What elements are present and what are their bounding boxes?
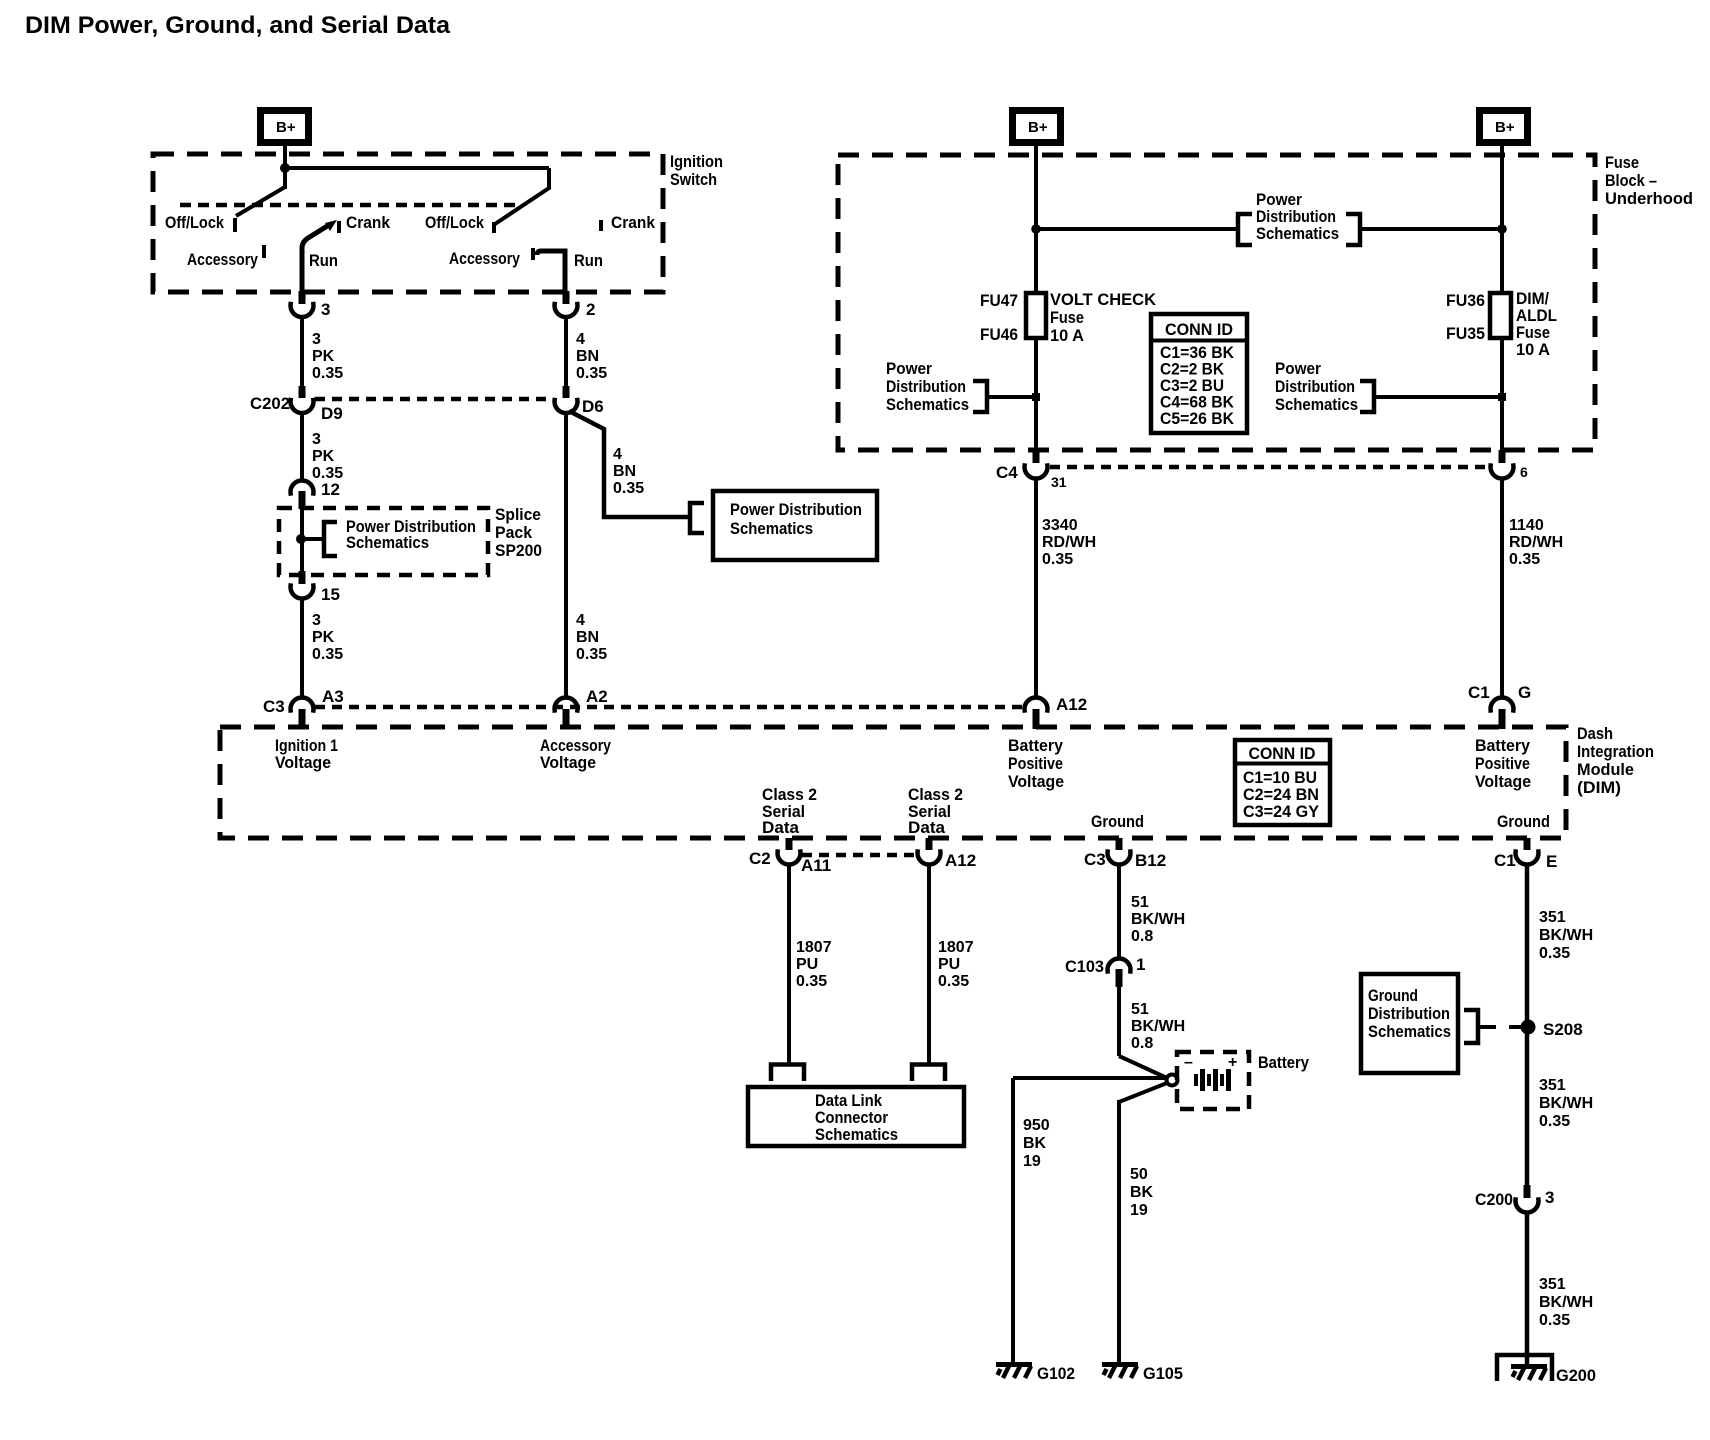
- svg-text:0.35: 0.35: [1539, 1113, 1570, 1130]
- svg-text:A12: A12: [945, 851, 976, 870]
- svg-text:3: 3: [321, 300, 330, 319]
- svg-text:31: 31: [1051, 474, 1067, 490]
- svg-text:S208: S208: [1543, 1020, 1583, 1039]
- svg-text:PU: PU: [796, 956, 818, 973]
- svg-text:D9: D9: [321, 404, 343, 423]
- svg-text:Dash: Dash: [1577, 724, 1613, 743]
- svg-text:Schematics: Schematics: [815, 1125, 898, 1144]
- svg-text:BN: BN: [613, 463, 636, 480]
- svg-text:50: 50: [1130, 1166, 1148, 1183]
- svg-text:Run: Run: [574, 251, 603, 270]
- svg-text:0.35: 0.35: [1042, 551, 1073, 568]
- svg-text:0.35: 0.35: [796, 973, 827, 990]
- svg-text:Voltage: Voltage: [1008, 772, 1064, 791]
- svg-text:12: 12: [321, 480, 340, 499]
- svg-text:FU47: FU47: [980, 291, 1018, 310]
- svg-text:1: 1: [1136, 955, 1145, 974]
- svg-text:Off/Lock: Off/Lock: [165, 213, 224, 232]
- svg-text:Battery: Battery: [1008, 736, 1063, 755]
- svg-text:C200: C200: [1475, 1190, 1513, 1209]
- svg-text:51: 51: [1131, 1001, 1149, 1018]
- svg-text:FU46: FU46: [980, 325, 1018, 344]
- svg-text:4: 4: [576, 612, 585, 629]
- svg-text:A12: A12: [1056, 695, 1087, 714]
- svg-text:1807: 1807: [938, 939, 974, 956]
- svg-text:0.35: 0.35: [576, 646, 607, 663]
- svg-text:Pack: Pack: [495, 523, 533, 542]
- svg-text:Module: Module: [1577, 760, 1634, 779]
- svg-text:Battery: Battery: [1258, 1053, 1309, 1072]
- svg-text:Schematics: Schematics: [346, 533, 429, 552]
- svg-text:A11: A11: [801, 856, 831, 875]
- svg-text:A3: A3: [322, 687, 344, 706]
- svg-text:Power Distribution: Power Distribution: [730, 500, 862, 519]
- svg-text:PK: PK: [312, 448, 335, 465]
- svg-text:3: 3: [312, 431, 321, 448]
- svg-text:C3=24 GY: C3=24 GY: [1243, 802, 1320, 821]
- svg-text:51: 51: [1131, 894, 1149, 911]
- svg-text:B+: B+: [1028, 119, 1048, 136]
- svg-text:Ground: Ground: [1368, 986, 1418, 1005]
- svg-text:CONN ID: CONN ID: [1249, 744, 1316, 763]
- svg-text:Run: Run: [309, 251, 338, 270]
- svg-text:G102: G102: [1037, 1364, 1075, 1383]
- svg-text:Ground: Ground: [1497, 812, 1550, 831]
- svg-text:VOLT CHECK: VOLT CHECK: [1050, 290, 1157, 309]
- svg-text:10 A: 10 A: [1050, 326, 1084, 345]
- svg-text:Ground: Ground: [1091, 812, 1144, 831]
- svg-text:Schematics: Schematics: [730, 519, 813, 538]
- svg-text:3: 3: [1545, 1188, 1554, 1207]
- svg-text:BK: BK: [1130, 1184, 1154, 1201]
- svg-text:C4: C4: [996, 463, 1018, 482]
- svg-text:BK/WH: BK/WH: [1539, 1294, 1593, 1311]
- svg-text:1140: 1140: [1509, 517, 1544, 534]
- svg-text:C1: C1: [1468, 683, 1490, 702]
- svg-text:PK: PK: [312, 348, 335, 365]
- svg-text:0.35: 0.35: [1539, 945, 1570, 962]
- svg-text:Voltage: Voltage: [540, 753, 596, 772]
- svg-text:PU: PU: [938, 956, 960, 973]
- svg-text:0.35: 0.35: [312, 365, 343, 382]
- svg-text:Distribution: Distribution: [1368, 1004, 1450, 1023]
- svg-text:0.35: 0.35: [312, 646, 343, 663]
- svg-text:E: E: [1546, 852, 1557, 871]
- svg-text:19: 19: [1130, 1202, 1148, 1219]
- svg-text:G200: G200: [1556, 1366, 1596, 1385]
- svg-text:Power: Power: [886, 359, 932, 378]
- svg-text:C2: C2: [749, 849, 771, 868]
- svg-text:G105: G105: [1143, 1364, 1183, 1383]
- svg-text:10 A: 10 A: [1516, 340, 1550, 359]
- svg-text:BK/WH: BK/WH: [1539, 927, 1593, 944]
- svg-text:BK: BK: [1023, 1135, 1047, 1152]
- svg-text:C1: C1: [1494, 851, 1516, 870]
- svg-text:3340: 3340: [1042, 517, 1078, 534]
- svg-text:15: 15: [321, 585, 340, 604]
- svg-text:Battery: Battery: [1475, 736, 1530, 755]
- svg-text:FU35: FU35: [1446, 324, 1485, 343]
- svg-text:Voltage: Voltage: [275, 753, 331, 772]
- svg-text:CONN ID: CONN ID: [1165, 320, 1233, 339]
- svg-text:Voltage: Voltage: [1475, 772, 1531, 791]
- svg-text:RD/WH: RD/WH: [1042, 534, 1096, 551]
- svg-text:Splice: Splice: [495, 505, 541, 524]
- svg-text:Underhood: Underhood: [1605, 189, 1693, 208]
- svg-text:Crank: Crank: [346, 213, 390, 232]
- svg-text:PK: PK: [312, 629, 335, 646]
- svg-text:SP200: SP200: [495, 541, 542, 560]
- svg-text:Positive: Positive: [1008, 754, 1063, 773]
- svg-text:RD/WH: RD/WH: [1509, 534, 1563, 551]
- svg-text:Integration: Integration: [1577, 742, 1654, 761]
- svg-text:Data: Data: [908, 818, 946, 837]
- svg-text:351: 351: [1539, 1077, 1566, 1094]
- svg-text:FU36: FU36: [1446, 291, 1485, 310]
- svg-text:2: 2: [586, 300, 595, 319]
- svg-text:Accessory: Accessory: [187, 250, 258, 269]
- svg-text:Distribution: Distribution: [1275, 377, 1355, 396]
- svg-text:–: –: [1184, 1054, 1193, 1071]
- svg-text:Block –: Block –: [1605, 171, 1657, 190]
- svg-text:C3: C3: [1084, 850, 1106, 869]
- svg-text:Fuse: Fuse: [1050, 308, 1084, 327]
- svg-text:(DIM): (DIM): [1577, 778, 1621, 797]
- svg-text:Fuse: Fuse: [1605, 153, 1639, 172]
- svg-text:0.35: 0.35: [1539, 1312, 1570, 1329]
- svg-text:0.35: 0.35: [1509, 551, 1540, 568]
- svg-text:BK/WH: BK/WH: [1131, 1018, 1185, 1035]
- svg-text:DIM Power, Ground, and Serial: DIM Power, Ground, and Serial Data: [25, 12, 451, 39]
- svg-text:C3: C3: [263, 697, 285, 716]
- svg-text:Schematics: Schematics: [1275, 395, 1358, 414]
- svg-text:Accessory: Accessory: [449, 249, 520, 268]
- svg-text:351: 351: [1539, 1276, 1566, 1293]
- svg-text:0.8: 0.8: [1131, 928, 1153, 945]
- svg-text:B+: B+: [1495, 119, 1515, 136]
- svg-text:Schematics: Schematics: [1256, 224, 1339, 243]
- svg-text:Positive: Positive: [1475, 754, 1530, 773]
- svg-text:950: 950: [1023, 1117, 1050, 1134]
- svg-text:19: 19: [1023, 1153, 1041, 1170]
- svg-text:3: 3: [312, 331, 321, 348]
- svg-text:6: 6: [1520, 464, 1528, 480]
- svg-text:Schematics: Schematics: [886, 395, 969, 414]
- svg-text:4: 4: [613, 446, 622, 463]
- svg-text:C103: C103: [1065, 957, 1104, 976]
- svg-text:G: G: [1518, 683, 1531, 702]
- svg-text:BN: BN: [576, 348, 599, 365]
- svg-text:+: +: [1228, 1054, 1237, 1071]
- svg-text:Off/Lock: Off/Lock: [425, 213, 484, 232]
- svg-text:D6: D6: [582, 397, 604, 416]
- svg-text:4: 4: [576, 331, 585, 348]
- svg-text:BN: BN: [576, 629, 599, 646]
- svg-text:0.35: 0.35: [613, 480, 644, 497]
- svg-text:Data: Data: [762, 818, 800, 837]
- svg-text:0.8: 0.8: [1131, 1035, 1153, 1052]
- svg-text:B12: B12: [1135, 851, 1166, 870]
- svg-text:351: 351: [1539, 909, 1566, 926]
- svg-text:0.35: 0.35: [576, 365, 607, 382]
- svg-text:Ignition: Ignition: [670, 152, 723, 171]
- svg-text:Switch: Switch: [670, 170, 717, 189]
- svg-text:Schematics: Schematics: [1368, 1022, 1451, 1041]
- svg-text:Power: Power: [1275, 359, 1321, 378]
- svg-text:B+: B+: [276, 119, 296, 136]
- svg-text:3: 3: [312, 612, 321, 629]
- svg-text:A2: A2: [586, 687, 608, 706]
- svg-text:C5=26 BK: C5=26 BK: [1160, 409, 1235, 428]
- svg-text:BK/WH: BK/WH: [1131, 911, 1185, 928]
- svg-text:0.35: 0.35: [938, 973, 969, 990]
- svg-text:C202: C202: [250, 394, 290, 413]
- svg-text:BK/WH: BK/WH: [1539, 1095, 1593, 1112]
- svg-text:Distribution: Distribution: [886, 377, 966, 396]
- svg-text:1807: 1807: [796, 939, 832, 956]
- svg-text:Crank: Crank: [611, 213, 655, 232]
